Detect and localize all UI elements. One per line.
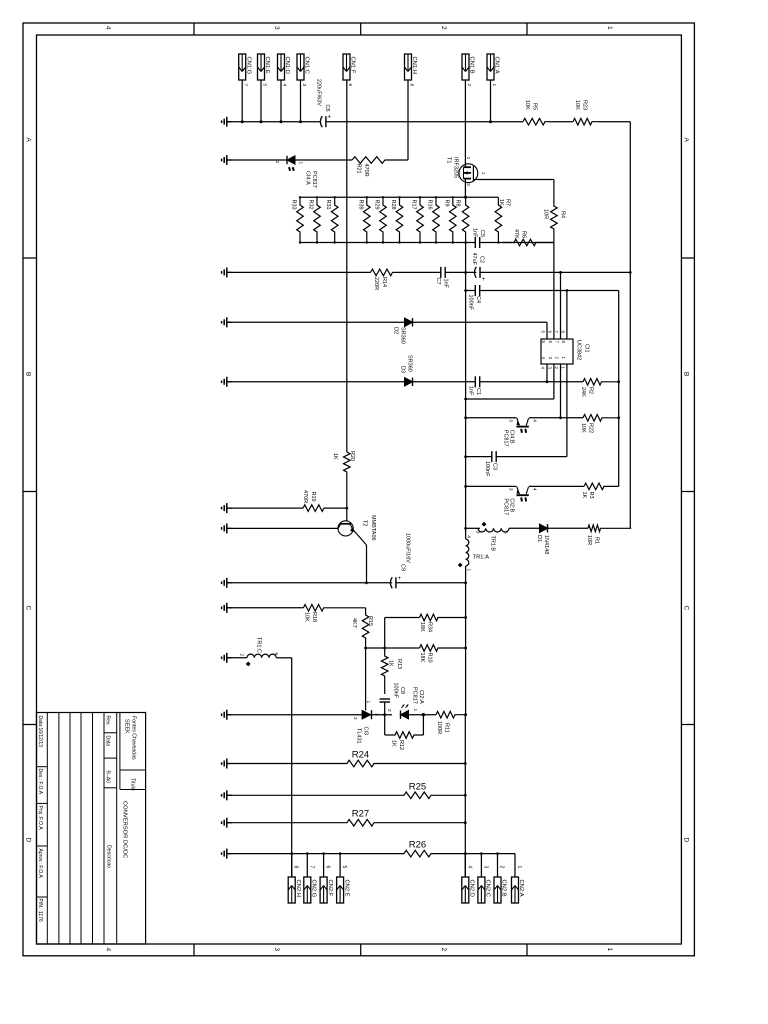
ground GND4: [227, 381, 232, 383]
svg-text:4: 4: [105, 948, 112, 952]
svg-text:R28: R28: [390, 200, 396, 210]
ground GND10 (TL431): [227, 714, 232, 716]
junction R31 top: [334, 196, 336, 198]
wire d3 rail mid: [413, 381, 476, 383]
wire CN1:C to gnd rail: [300, 80, 302, 122]
resistor R27: [227, 819, 465, 826]
optocoupler CI4:B PC817: [516, 426, 528, 428]
svg-text:3: 3: [507, 419, 513, 422]
svg-text:1: 1: [606, 948, 613, 952]
svg-text:C9: C9: [400, 564, 406, 571]
junction R28 bottom: [398, 241, 400, 243]
wire CN1:F column down to T2 base: [346, 80, 348, 452]
wire CN2:G stub: [306, 854, 308, 877]
svg-text:C: C: [25, 606, 32, 611]
svg-text:C2: C2: [479, 256, 485, 263]
svg-text:C6: C6: [324, 105, 330, 112]
wire r34 rail left: [385, 617, 420, 619]
transistor T2 MMBTA06: [338, 521, 353, 536]
resistor R29: [380, 197, 387, 242]
svg-text:3: 3: [301, 84, 307, 87]
svg-text:CN2:G: CN2:G: [311, 880, 317, 898]
title block row lines: [46, 713, 48, 945]
svg-text:Data: Data: [105, 736, 111, 747]
wire tr1b to d1: [509, 527, 540, 529]
svg-text:D: D: [683, 838, 690, 843]
resistor R13: [381, 653, 388, 694]
resistor R24: [227, 760, 465, 767]
diode D1 1N4148: [540, 524, 548, 532]
junction r25 column: [464, 794, 467, 797]
svg-text:CN1:D: CN1:D: [284, 57, 290, 74]
wire main column upper: [465, 243, 467, 529]
connector pin CN1:A: [487, 54, 494, 80]
svg-text:R6: R6: [521, 231, 527, 238]
svg-text:CN1:A: CN1:A: [494, 57, 500, 74]
wire IC pin1 down: [566, 364, 568, 457]
junction CN2:E rail: [339, 852, 342, 855]
wire r12 right leg: [422, 715, 424, 735]
svg-text:CN1:G: CN1:G: [245, 57, 251, 75]
wire main column lower: [465, 583, 467, 715]
resistor R11: [436, 711, 466, 718]
svg-text:6: 6: [273, 653, 279, 656]
svg-text:R15: R15: [367, 616, 373, 626]
svg-text:47K: 47K: [513, 229, 519, 239]
svg-text:2: 2: [440, 948, 447, 952]
wire c9 rail left: [227, 582, 392, 584]
connector pin CN1:C: [297, 54, 304, 80]
wire CN1:H down to R21: [407, 80, 409, 160]
wire ci4a to r21: [295, 159, 352, 161]
junction vref column: [464, 289, 467, 292]
junction CN1:E rail: [260, 120, 263, 123]
junction R17 top: [419, 196, 421, 198]
svg-text:4: 4: [531, 488, 537, 491]
wire c9 rail right: [396, 582, 466, 584]
svg-text:T1: T1: [446, 157, 452, 163]
junction R31 bottom: [334, 241, 336, 243]
optocoupler CI2:B PC817: [516, 494, 528, 496]
svg-text:Data:16/12/13: Data:16/12/13: [37, 716, 43, 748]
junction r34 column: [464, 616, 467, 619]
connector pin CN1:H: [405, 54, 412, 80]
svg-text:Descricao: Descricao: [106, 845, 112, 868]
svg-text:10K: 10K: [524, 100, 530, 110]
resistor R9: [450, 197, 457, 242]
svg-text:SR360: SR360: [407, 355, 413, 372]
svg-text:1K: 1K: [581, 492, 587, 499]
svg-text:47uF: 47uF: [471, 253, 477, 266]
resistor R25: [227, 792, 465, 799]
wire vref rail: [466, 290, 475, 292]
resistor R33: [297, 197, 304, 242]
svg-text:R26: R26: [409, 840, 426, 851]
svg-text:CN1:H: CN1:H: [411, 57, 417, 74]
svg-text:C7: C7: [435, 278, 441, 285]
svg-text:IRF3205: IRF3205: [453, 157, 459, 178]
op-amp U1 CI1 UC3842 box: [541, 339, 573, 364]
resistor R23: [573, 118, 599, 125]
svg-text:3: 3: [475, 531, 481, 534]
wire right riser A: [618, 291, 620, 487]
ground GND3: [227, 321, 232, 323]
junction CN1:C rail: [299, 120, 302, 123]
svg-text:10R: 10R: [543, 209, 549, 219]
svg-text:1: 1: [297, 162, 303, 165]
resistor R17: [417, 197, 424, 242]
wire R23 to corner: [599, 121, 630, 123]
resistor R32: [314, 197, 321, 242]
junction pin2 rail: [559, 416, 562, 419]
junction r24 column: [464, 762, 467, 765]
wire top rail mid: [326, 121, 523, 123]
svg-text:R33: R33: [291, 200, 297, 210]
wire T1 gate to R4: [478, 179, 554, 181]
svg-text:+: +: [328, 115, 332, 121]
capacitor C6: [320, 116, 322, 127]
svg-text:R39: R39: [357, 200, 363, 210]
junction cn2b rail: [496, 852, 499, 855]
wire ci4 rail right: [529, 417, 583, 419]
wire snubber bottom rail right: [480, 242, 554, 244]
title block rev strip dividers: [104, 732, 117, 734]
svg-text:R20: R20: [349, 451, 355, 461]
junction tr1b column: [464, 527, 467, 530]
svg-text:B: B: [25, 372, 32, 376]
wire c3 rail left: [466, 456, 492, 458]
svg-text:R27: R27: [352, 809, 369, 820]
connector pin CN1:F: [343, 54, 350, 80]
svg-text:1000uF/16V: 1000uF/16V: [405, 533, 411, 563]
svg-text:R18: R18: [311, 612, 317, 622]
junction R32 top: [316, 196, 318, 198]
wire main column tr1a bottom: [465, 566, 467, 583]
svg-text:A: A: [25, 138, 32, 143]
svg-text:CI2:A: CI2:A: [418, 690, 424, 704]
led CI4:A PC817: [287, 156, 295, 164]
led CI2:A PC817: [401, 711, 409, 719]
svg-text:C5: C5: [479, 230, 485, 237]
zone tick bottom 4|3: [193, 944, 195, 956]
svg-text:Des.: F.O.A: Des.: F.O.A: [37, 769, 43, 795]
svg-text:220uF/63V: 220uF/63V: [316, 79, 322, 106]
junction CN2:F rail: [322, 852, 325, 855]
svg-text:R2: R2: [588, 387, 594, 394]
wire CN2:F stub: [323, 854, 325, 877]
svg-text:6: 6: [325, 866, 331, 869]
svg-text:100R: 100R: [436, 721, 442, 734]
junction vcc pin7: [559, 271, 562, 274]
wire led to r11: [409, 714, 437, 716]
wire r19 rail: [227, 507, 303, 509]
wire r15 node down to TL431 ref: [365, 648, 367, 711]
wire VCC right riser: [629, 122, 631, 529]
svg-text:1N4148: 1N4148: [543, 535, 549, 554]
svg-text:5: 5: [503, 531, 509, 534]
svg-text:2: 2: [499, 866, 505, 869]
svg-text:PC817: PC817: [411, 687, 417, 704]
svg-text:2: 2: [274, 161, 280, 164]
svg-text:CONVERSOR DC/DC: CONVERSOR DC/DC: [122, 801, 128, 858]
svg-text:C: C: [683, 606, 690, 611]
svg-text:1: 1: [365, 701, 371, 704]
svg-text:4: 4: [531, 419, 537, 422]
junction c3 column: [464, 455, 467, 458]
wire d2 rail right: [413, 321, 548, 323]
resistor R4: [551, 180, 558, 243]
drawing frame outer border: [23, 23, 694, 956]
wire d3 rail left: [227, 381, 405, 383]
ground GND1: [227, 121, 232, 123]
zone tick top 3|2: [360, 23, 362, 35]
svg-text:220R: 220R: [373, 277, 379, 290]
svg-text:R–A0: R–A0: [105, 771, 111, 784]
svg-text:CN1:C: CN1:C: [304, 57, 310, 74]
svg-text:4K7: 4K7: [351, 618, 357, 628]
wire r10 rail left: [366, 647, 420, 649]
diode D2 SR360: [405, 318, 413, 326]
svg-text:CI4:B: CI4:B: [508, 430, 514, 444]
svg-text:R4: R4: [560, 211, 566, 218]
junction R16 bottom: [435, 241, 437, 243]
wire IC pin3 down: [553, 364, 555, 399]
svg-text:CN2:B: CN2:B: [501, 880, 507, 897]
svg-text:C3: C3: [492, 463, 498, 470]
svg-text:R7: R7: [505, 199, 511, 206]
zone tick left C|D: [23, 724, 37, 726]
zone tick right B|C: [681, 491, 694, 493]
connector pin CN2:E: [337, 877, 344, 903]
zone tick left A|B: [23, 257, 37, 259]
svg-text:5: 5: [261, 84, 267, 87]
svg-text:24K: 24K: [580, 387, 586, 397]
resistor R34: [420, 614, 466, 621]
wire t2 base: [346, 508, 348, 521]
junction r27 column: [464, 821, 467, 824]
svg-text:10K: 10K: [574, 100, 580, 110]
svg-text:R8: R8: [455, 200, 461, 207]
drawing frame inner border: [37, 35, 682, 944]
svg-text:2: 2: [440, 26, 447, 30]
wire vcc rail right: [480, 271, 630, 273]
svg-text:MMBTA06: MMBTA06: [370, 515, 376, 541]
svg-text:1: 1: [412, 709, 418, 712]
svg-text:R24: R24: [352, 750, 369, 761]
svg-text:D: D: [25, 838, 32, 843]
svg-text:R12: R12: [398, 740, 404, 750]
connector pin CN2:F: [320, 877, 327, 903]
svg-text:2: 2: [352, 717, 358, 720]
svg-text:Rev.: Rev.: [105, 716, 111, 726]
svg-text:1: 1: [480, 172, 486, 175]
svg-text:1: 1: [606, 26, 613, 30]
svg-text:TL431: TL431: [356, 728, 362, 744]
svg-text:CN1:F: CN1:F: [350, 57, 356, 74]
connector pin CN1:G: [239, 54, 246, 80]
wire R4/R6 node down to IC pin6: [553, 243, 555, 340]
svg-text:1nF: 1nF: [468, 386, 474, 396]
svg-text:CI1: CI1: [584, 344, 590, 353]
wire vcc rail mid1: [393, 271, 441, 273]
svg-text:R21: R21: [356, 164, 362, 174]
svg-text:100nF: 100nF: [393, 683, 399, 699]
zone tick bottom 3|2: [360, 944, 362, 956]
svg-text:R17: R17: [411, 200, 417, 210]
capacitor C1: [474, 376, 476, 387]
wire top rail left: [227, 121, 321, 123]
svg-text:R1: R1: [594, 537, 600, 544]
ground GND12 (R25): [227, 794, 232, 796]
svg-text:CN2:F: CN2:F: [327, 880, 333, 897]
junction r13 top: [383, 647, 386, 650]
wire c3 rail right: [496, 456, 567, 458]
ground GND13 (R27): [227, 822, 232, 824]
svg-text:R14: R14: [381, 277, 387, 287]
zone tick top 2|1: [526, 23, 528, 35]
junction R28 top: [398, 196, 400, 198]
wire CN2:B stub: [497, 854, 499, 877]
junction c8/r12 node: [383, 713, 386, 716]
svg-text:10K: 10K: [580, 423, 586, 433]
svg-text:1K: 1K: [332, 453, 338, 460]
wire tr1c to corner: [276, 657, 291, 659]
wire vcc rail mid2: [445, 271, 476, 273]
junction CN1:G rail: [241, 120, 244, 123]
wire r18 rail: [227, 607, 304, 609]
wire vref rail right: [480, 290, 619, 292]
svg-text:CI3: CI3: [363, 727, 369, 736]
svg-text:7: 7: [308, 866, 314, 869]
wire output column: [464, 715, 466, 877]
ground GND6 (T2): [227, 527, 232, 529]
svg-text:UC3842: UC3842: [576, 340, 582, 360]
title block outline: [37, 713, 146, 945]
wire ci4 rail left: [466, 417, 517, 419]
junction cn2c rail: [480, 852, 483, 855]
junction ci4 column: [464, 416, 467, 419]
wire CN2:C stub: [480, 854, 482, 877]
svg-text:2: 2: [386, 709, 392, 712]
svg-text:CN1:E: CN1:E: [264, 57, 270, 74]
wire t2 emitter diagonal: [353, 530, 366, 545]
svg-text:CN1:B: CN1:B: [469, 57, 475, 74]
junction CN1:A rail: [489, 120, 492, 123]
junction r10 column: [464, 647, 467, 650]
shunt regulator CI3 TL431: [362, 710, 371, 719]
junction CN2:H rail: [290, 852, 293, 855]
wire main column tr1a top: [465, 528, 467, 539]
svg-text:D3: D3: [400, 366, 406, 373]
wire CN1:D to gnd rail: [280, 80, 282, 122]
svg-text:1K: 1K: [391, 740, 397, 747]
svg-text:CN2:E: CN2:E: [343, 880, 349, 897]
wire d2 rail left: [227, 321, 405, 323]
wire d1 to r1: [548, 527, 589, 529]
junction R16 top: [435, 196, 437, 198]
svg-text:PC817: PC817: [311, 171, 317, 188]
wire tr1c column down to CN2:H: [291, 658, 293, 877]
svg-text:R9: R9: [443, 200, 449, 207]
svg-text:4: 4: [281, 84, 287, 87]
wire IC pin2 down: [560, 364, 562, 418]
capacitor C9: [390, 577, 392, 588]
resistor R16: [433, 197, 440, 242]
wire t2 emitter down: [366, 545, 368, 583]
svg-text:Aprov.: F.O.A: Aprov.: F.O.A: [37, 849, 43, 879]
connector pin CN2:G: [304, 877, 311, 903]
zone tick right C|D: [681, 724, 694, 726]
svg-text:3: 3: [273, 26, 280, 30]
capacitor C3: [491, 451, 493, 462]
svg-text:CN2:H: CN2:H: [295, 880, 301, 897]
svg-text:D2: D2: [393, 327, 399, 334]
capacitor C7: [440, 267, 442, 278]
connector pin CN2:A: [512, 877, 519, 903]
resistor R18: [303, 605, 365, 612]
title block company box: [119, 713, 121, 771]
resistor R3: [584, 483, 619, 490]
svg-text:R3: R3: [588, 492, 594, 499]
svg-text:A: A: [683, 138, 690, 143]
svg-text:CI4:A: CI4:A: [304, 171, 310, 185]
svg-text:10K: 10K: [304, 612, 310, 622]
capacitor C2: [475, 267, 477, 278]
wire IC pin7 riser: [560, 272, 562, 339]
junction R33 top: [299, 196, 301, 198]
wire CN2:A stub: [514, 854, 516, 877]
connector pin CN2:C: [478, 877, 485, 903]
resistor R31: [331, 197, 338, 242]
wire CN2:H stub: [291, 854, 293, 877]
junction r11 column: [464, 713, 467, 716]
junction R9 bottom: [452, 241, 454, 243]
resistor R10: [420, 645, 466, 652]
svg-text:470R: 470R: [302, 490, 308, 503]
svg-text:3: 3: [482, 866, 488, 869]
svg-text:Fontes Chaveadas: Fontes Chaveadas: [131, 716, 137, 760]
connector pin CN2:H: [288, 877, 295, 903]
wire t2 collector rail: [227, 527, 338, 529]
svg-text:R19: R19: [310, 492, 316, 502]
wire IC pin8 riser: [566, 291, 568, 340]
svg-text:R10: R10: [427, 653, 433, 663]
resistor R15: [362, 608, 369, 648]
svg-text:R11: R11: [444, 723, 450, 733]
svg-text:SR360: SR360: [400, 327, 406, 344]
svg-text:R34: R34: [427, 622, 433, 632]
junction R33 bottom: [299, 241, 301, 243]
resistor R21: [352, 157, 408, 164]
junction pin4 rail: [546, 380, 549, 383]
junction r26 column: [464, 852, 467, 855]
title block left cell dividers: [37, 766, 48, 768]
junction R29 top: [382, 196, 384, 198]
svg-text:Titulo: Titulo: [130, 778, 136, 791]
ground GND15 (CI4:A): [227, 159, 232, 161]
svg-text:SEEK: SEEK: [124, 719, 130, 734]
wire CN1:G to gnd rail: [241, 80, 243, 122]
resistor R8: [462, 197, 469, 242]
ground GND7 (C9): [227, 582, 232, 584]
svg-text:R25: R25: [409, 782, 426, 793]
svg-text:R5: R5: [532, 103, 538, 110]
transformer TR1:C winding: [247, 654, 276, 658]
svg-text:18K: 18K: [419, 622, 425, 632]
svg-text:R22: R22: [588, 423, 594, 433]
junction t2 emitter rail: [365, 581, 368, 584]
capacitor C8 plates: [380, 698, 391, 700]
